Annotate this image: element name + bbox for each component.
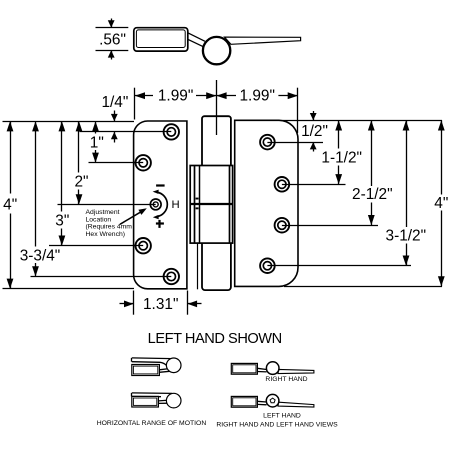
screw hole E inner	[167, 272, 175, 280]
motion diagram 2 arm	[132, 392, 172, 395]
motion diagram 1 leaf	[132, 365, 160, 376]
motion diagram 1 neck	[159, 369, 169, 370]
dim 4 inch left line	[10, 121, 12, 193]
dim 1/4 inch upper arrow	[114, 111, 116, 122]
dim 3-3/4 inch line	[35, 121, 37, 246]
motion diagram 1 arm	[132, 357, 172, 360]
svg-text:1/2": 1/2"	[301, 123, 328, 140]
adjustment arc	[157, 192, 168, 217]
left leaf	[134, 121, 187, 289]
svg-text:4": 4"	[3, 196, 17, 213]
left hand diagram arm	[278, 402, 314, 407]
dim 1.31 left arrow	[120, 303, 134, 305]
screw hole R4 outer	[260, 258, 275, 273]
dim 1.99 left segment	[135, 95, 153, 97]
svg-text:1.99": 1.99"	[239, 88, 274, 105]
svg-text:LEFT HAND: LEFT HAND	[263, 412, 301, 419]
dim 1.31 extension right	[187, 291, 189, 315]
right hand diagram neck	[257, 368, 266, 369]
dim 3 inch line	[61, 121, 63, 211]
svg-text:RIGHT HAND: RIGHT HAND	[265, 376, 307, 383]
left bottom reference line	[3, 288, 135, 290]
hole R2 leader line	[282, 184, 346, 186]
dim 1.31 extension left	[133, 291, 135, 315]
dim 1/4 inch lower arrow	[114, 132, 116, 143]
barrel inner line right	[194, 166, 196, 244]
dim 1-1/2 inch line	[338, 120, 340, 148]
svg-text:1.99": 1.99"	[158, 88, 193, 105]
svg-text:3-1/2": 3-1/2"	[386, 228, 427, 245]
left hand diagram neck	[257, 400, 266, 403]
dim .56 bottom line	[96, 50, 129, 52]
dim .56 upper arrow stem	[111, 19, 113, 28]
svg-text:Location: Location	[86, 216, 112, 223]
screw hole A outer	[164, 124, 179, 139]
dim 1.99 right segment	[216, 95, 236, 97]
screw hole R4 inner	[263, 262, 271, 270]
right hand diagram arm	[278, 369, 314, 373]
screw hole R3 outer	[275, 218, 290, 233]
adjustment note arrow	[120, 212, 141, 225]
dim 4 inch right line	[441, 120, 443, 194]
top view knuckle circle	[203, 37, 230, 64]
dim .56 upper arrowhead	[108, 20, 115, 27]
right hand diagram knuckle	[266, 362, 279, 375]
screw hole R1 outer	[260, 135, 275, 150]
svg-text:H: H	[172, 199, 180, 211]
dim 1.31 right arrow	[188, 303, 202, 305]
top view arm	[225, 37, 301, 44]
svg-text:RIGHT HAND AND LEFT HAND VIEWS: RIGHT HAND AND LEFT HAND VIEWS	[216, 422, 338, 429]
left hand diagram leaf	[231, 396, 257, 407]
barrel divider upper	[190, 203, 232, 205]
left hand diagram knuckle	[266, 394, 279, 407]
screw hole R2 outer	[275, 177, 290, 192]
svg-text:Adjustment: Adjustment	[86, 209, 120, 216]
motion diagram 1 knuckle	[166, 358, 181, 373]
left hand diagram socket	[270, 398, 275, 403]
svg-text:2-1/2": 2-1/2"	[352, 186, 393, 203]
svg-text:1-1/2": 1-1/2"	[321, 149, 362, 166]
svg-text:1/4": 1/4"	[101, 94, 128, 111]
svg-text:4": 4"	[434, 195, 448, 212]
dim 1/2 inch lower arrow	[313, 142, 315, 151]
dim 1 inch line	[95, 121, 97, 133]
dim 1.99 extension right	[297, 88, 299, 133]
dim 2-1/2 inch line	[371, 120, 373, 186]
top view neck line lower	[188, 39, 204, 47]
adjustment arc top arrowhead	[153, 190, 159, 194]
right top reference line	[283, 120, 442, 122]
right hand diagram leaf	[231, 363, 257, 374]
barrel top cap	[202, 116, 231, 165]
svg-text:.56": .56"	[99, 31, 126, 48]
top view neck line upper	[188, 33, 205, 42]
right leaf	[235, 120, 298, 286]
screw hole E outer	[164, 269, 179, 284]
barrel mid section outer	[190, 166, 232, 244]
adjustment hole outer	[150, 199, 161, 210]
svg-text:3-3/4": 3-3/4"	[20, 247, 61, 264]
hole E leader line	[31, 276, 172, 278]
barrel inner line left	[199, 166, 201, 244]
dim 3-1/2 inch line	[406, 120, 408, 227]
svg-text:3": 3"	[55, 213, 69, 230]
hole R1 leader line	[267, 142, 323, 144]
screw hole B inner	[139, 159, 147, 167]
hole A leader line	[80, 131, 172, 133]
motion diagram 2 knuckle	[166, 393, 181, 408]
svg-text:(Requires 4mm: (Requires 4mm	[86, 224, 133, 231]
screw hole D inner	[139, 242, 147, 250]
dim 1.99 extension center	[216, 80, 218, 135]
dim .56 lower arrow stem	[111, 50, 113, 59]
screw hole R1 inner	[263, 138, 271, 146]
right bottom reference line	[284, 286, 442, 288]
left top reference line	[3, 121, 135, 123]
dim 2 inch line	[78, 121, 80, 172]
adjustment arc bottom arrowhead	[153, 215, 159, 219]
barrel tick upper	[196, 198, 199, 200]
hole B leader line	[89, 162, 144, 164]
screw hole R2 inner	[278, 180, 286, 188]
screw hole R3 inner	[278, 221, 286, 229]
svg-text:2": 2"	[74, 173, 88, 190]
barrel divider lower	[190, 204, 232, 206]
top view leaf profile inner	[136, 30, 185, 48]
screw hole B outer	[136, 155, 151, 170]
barrel tick lower	[196, 207, 199, 209]
screw hole A inner	[167, 128, 175, 136]
dim .56 top line	[96, 27, 129, 29]
svg-text:LEFT HAND SHOWN: LEFT HAND SHOWN	[148, 331, 282, 347]
hole C leader line	[58, 204, 156, 206]
dim .56 lower arrowhead	[108, 50, 115, 57]
svg-text:Hex Wrench): Hex Wrench)	[86, 231, 126, 238]
svg-text:1.31": 1.31"	[143, 296, 178, 313]
hole D leader line	[49, 245, 143, 247]
barrel bottom cap	[202, 243, 231, 290]
hole R3 leader line	[282, 225, 378, 227]
minus sign	[156, 184, 165, 186]
adjustment hole inner	[153, 202, 158, 207]
svg-text:1": 1"	[90, 134, 104, 151]
adjustment note text	[86, 209, 133, 238]
screw hole D outer	[136, 238, 151, 253]
top view leaf profile outer	[134, 28, 188, 51]
svg-text:HORIZONTAL RANGE OF MOTION: HORIZONTAL RANGE OF MOTION	[97, 420, 207, 427]
plus sign	[156, 222, 164, 224]
hole R4 leader line	[267, 265, 411, 267]
dim 1/2 inch upper arrow	[313, 111, 315, 120]
motion diagram 2 leaf	[132, 396, 159, 407]
dim 1.99 extension left	[134, 88, 136, 120]
motion diagram 2 neck	[159, 399, 169, 402]
